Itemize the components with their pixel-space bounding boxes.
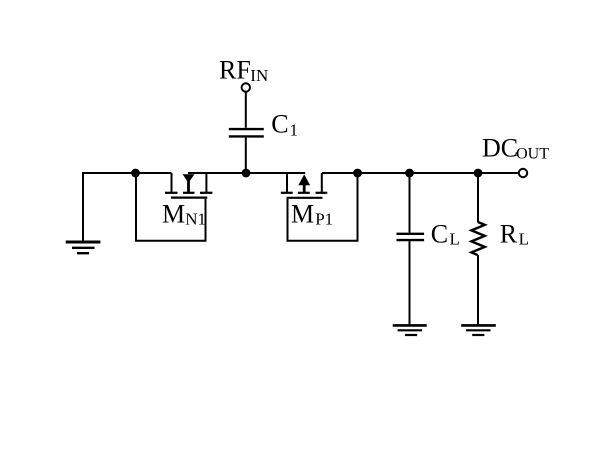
wire: MN1 gate loop bbox=[136, 174, 206, 241]
node: junction dot CL branch bbox=[405, 169, 414, 178]
svg-text:IN: IN bbox=[250, 66, 268, 85]
capacitor C1 bbox=[229, 129, 264, 136]
wire: RF_IN to C1 bbox=[245, 92, 247, 128]
svg-text:RF: RF bbox=[219, 56, 251, 85]
label C1 bbox=[271, 110, 298, 140]
svg-text:M: M bbox=[162, 199, 185, 228]
ground (left) bbox=[66, 242, 101, 253]
terminal: RF_IN open circle bbox=[242, 83, 250, 91]
svg-text:L: L bbox=[519, 230, 529, 249]
resistor RL bbox=[471, 222, 484, 255]
svg-text:L: L bbox=[450, 230, 460, 249]
wire: output rail bbox=[322, 172, 519, 174]
wire: middle rail bbox=[188, 172, 305, 174]
capacitor CL bbox=[397, 234, 425, 240]
wire: CL to ground bbox=[409, 241, 411, 324]
node: junction dot MP1 gate on output rail bbox=[353, 169, 362, 178]
svg-text:M: M bbox=[291, 199, 314, 228]
terminal: DC_OUT open circle bbox=[519, 169, 527, 177]
wire: MP1 gate loop bbox=[288, 174, 358, 241]
node: junction dot C1 on middle rail bbox=[242, 169, 251, 178]
node: junction dot MN1 gate on left rail bbox=[131, 169, 140, 178]
svg-text:P1: P1 bbox=[315, 209, 333, 228]
label RF_IN bbox=[219, 56, 268, 85]
wire: output rail down to RL bbox=[477, 173, 479, 223]
label DC_OUT bbox=[482, 134, 549, 163]
svg-text:C: C bbox=[431, 219, 448, 248]
node: junction dot RL branch bbox=[474, 169, 483, 178]
label CL bbox=[431, 219, 460, 248]
transistor MN1 (diode-connected NMOS) bbox=[165, 173, 212, 198]
label MN1 bbox=[162, 199, 206, 228]
svg-text:N1: N1 bbox=[185, 209, 206, 228]
transistor MP1 (diode-connected PMOS) bbox=[281, 173, 328, 198]
svg-text:1: 1 bbox=[290, 121, 299, 140]
svg-text:DC: DC bbox=[482, 134, 518, 163]
label MP1 bbox=[291, 199, 333, 228]
wire: RL to ground bbox=[477, 255, 479, 325]
wire: left drop to ground bbox=[82, 172, 84, 242]
wire: left rail (ground net) bbox=[83, 172, 172, 174]
wire: output rail down to CL bbox=[409, 173, 411, 233]
ground (under CL) bbox=[393, 325, 427, 335]
ground (under RL) bbox=[461, 325, 496, 335]
label RL bbox=[500, 219, 529, 248]
svg-text:OUT: OUT bbox=[516, 146, 549, 163]
svg-text:C: C bbox=[271, 110, 288, 139]
svg-text:R: R bbox=[500, 219, 518, 248]
wire: C1 to middle rail bbox=[245, 138, 247, 173]
